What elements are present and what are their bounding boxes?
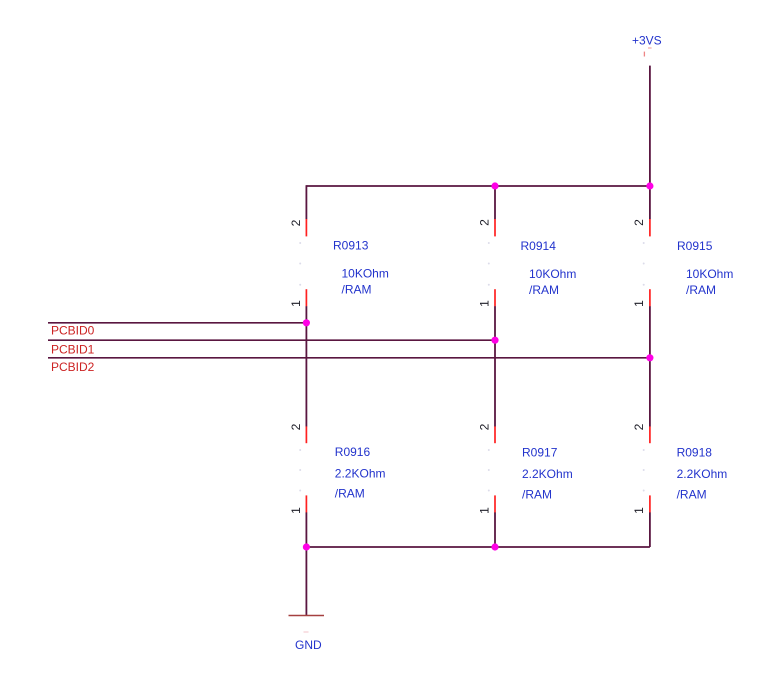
svg-text:R0915: R0915 xyxy=(677,239,713,253)
junction top col2 xyxy=(491,182,498,189)
svg-text:/RAM: /RAM xyxy=(335,487,365,501)
wire top bus xyxy=(306,185,650,187)
wire col3 R0915 pin1 to PCBID2 node xyxy=(649,306,651,358)
wire col2 PCBID1 node down to R0917 pin2 xyxy=(494,340,496,426)
svg-text:GND: GND xyxy=(295,638,322,652)
svg-text:2: 2 xyxy=(289,219,303,226)
svg-text:R0918: R0918 xyxy=(677,446,713,460)
svg-text:R0917: R0917 xyxy=(522,446,558,460)
svg-text:10KOhm: 10KOhm xyxy=(529,267,576,281)
wire col2 bus to R0914 pin2 xyxy=(494,186,496,219)
svg-text:PCBID1: PCBID1 xyxy=(51,343,95,357)
svg-text:10KOhm: 10KOhm xyxy=(342,267,389,281)
svg-text:2: 2 xyxy=(477,219,491,226)
wire col3 PCBID2 node down to R0918 pin2 xyxy=(649,358,651,427)
wire col3 R0918 pin1 to bottom bus xyxy=(649,512,651,547)
wire col1 bus to R0913 pin2 xyxy=(305,185,307,219)
wire col1 PCBID0 node down to R0916 pin2 xyxy=(305,323,307,427)
svg-text:1: 1 xyxy=(632,300,646,307)
wire col1 R0913 pin1 to PCBID0 node xyxy=(305,306,307,323)
svg-text:2: 2 xyxy=(289,423,303,430)
svg-text:1: 1 xyxy=(289,300,303,307)
junction bottom col2 xyxy=(491,543,498,550)
wire GND stem xyxy=(305,547,307,616)
svg-text:1: 1 xyxy=(477,507,491,514)
svg-text:2.2KOhm: 2.2KOhm xyxy=(522,467,573,481)
svg-text:R0913: R0913 xyxy=(333,239,369,253)
svg-text:/RAM: /RAM xyxy=(529,283,559,297)
svg-text:2.2KOhm: 2.2KOhm xyxy=(677,467,728,481)
svg-text:PCBID2: PCBID2 xyxy=(51,360,95,374)
wire net PCBID2 xyxy=(48,357,650,359)
junction PCBID2 col3 xyxy=(646,354,653,361)
svg-text:+3VS: +3VS xyxy=(632,34,662,48)
wire +3VS stem xyxy=(649,66,651,186)
resistor R0917 xyxy=(477,423,572,514)
svg-text:2: 2 xyxy=(632,423,646,430)
svg-text:10KOhm: 10KOhm xyxy=(686,267,733,281)
wire net PCBID1 xyxy=(48,339,495,341)
resistor R0913 xyxy=(289,219,389,307)
ground xyxy=(289,616,325,653)
svg-text:R0914: R0914 xyxy=(521,239,557,253)
wire net PCBID0 xyxy=(48,322,306,324)
svg-text:/RAM: /RAM xyxy=(342,283,372,297)
junction top col3 xyxy=(646,182,653,189)
svg-text:/RAM: /RAM xyxy=(686,283,716,297)
resistor R0916 xyxy=(289,423,386,514)
svg-text:2: 2 xyxy=(632,219,646,226)
svg-text:1: 1 xyxy=(289,507,303,514)
svg-text:R0916: R0916 xyxy=(335,445,371,459)
wire col1 R0916 pin1 to bottom bus xyxy=(305,512,307,547)
svg-text:2: 2 xyxy=(477,423,491,430)
resistor R0918 xyxy=(632,423,727,514)
junction PCBID1 col2 xyxy=(491,337,498,344)
wire col2 R0914 pin1 to PCBID1 node xyxy=(494,306,496,340)
power symbol +3VS xyxy=(632,34,662,57)
wire col2 R0917 pin1 to bottom bus xyxy=(494,512,496,547)
svg-text:1: 1 xyxy=(632,507,646,514)
svg-text:/RAM: /RAM xyxy=(522,488,552,502)
resistor R0915 xyxy=(632,219,733,307)
svg-text:2.2KOhm: 2.2KOhm xyxy=(335,467,386,481)
wire col3 bus to R0915 pin2 xyxy=(649,186,651,219)
junction PCBID0 col1 xyxy=(303,319,310,326)
svg-text:1: 1 xyxy=(477,300,491,307)
svg-text:/RAM: /RAM xyxy=(677,488,707,502)
junction bottom col1 xyxy=(303,543,310,550)
resistor R0914 xyxy=(477,219,576,307)
svg-text:PCBID0: PCBID0 xyxy=(51,324,95,338)
wire bottom bus xyxy=(306,546,650,548)
